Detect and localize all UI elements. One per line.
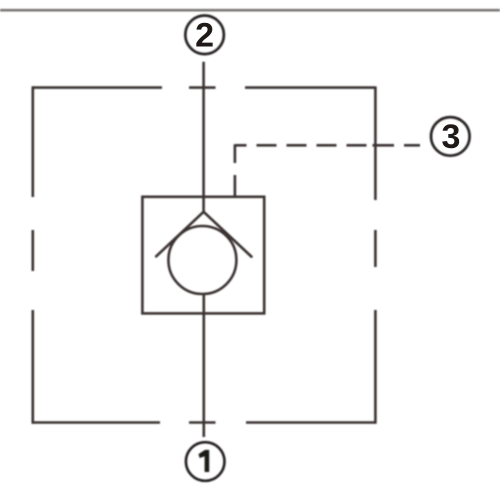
cartridge boundary dashed rect: bottom edge	[32, 421, 375, 424]
check valve seat V	[156, 212, 251, 257]
cartridge boundary dashed rect: right edge	[374, 86, 377, 423]
svg-text:2: 2	[195, 16, 214, 54]
wire port1 vertical	[203, 295, 206, 438]
valve body box	[142, 197, 264, 314]
port 2 circle	[185, 16, 224, 55]
drawing frame top border	[0, 9, 500, 12]
port 1 circle	[186, 442, 225, 481]
cartridge boundary dashed rect: top edge	[32, 86, 375, 89]
port 1 label	[199, 450, 210, 472]
port 3 circle	[431, 117, 470, 156]
pilot line dashed vertical	[234, 144, 237, 196]
svg-text:3: 3	[442, 118, 461, 156]
check valve ball	[168, 226, 236, 294]
wire port2 vertical	[202, 62, 205, 212]
cartridge boundary dashed rect: left edge	[31, 86, 34, 423]
pilot line dashed horizontal	[235, 144, 420, 147]
